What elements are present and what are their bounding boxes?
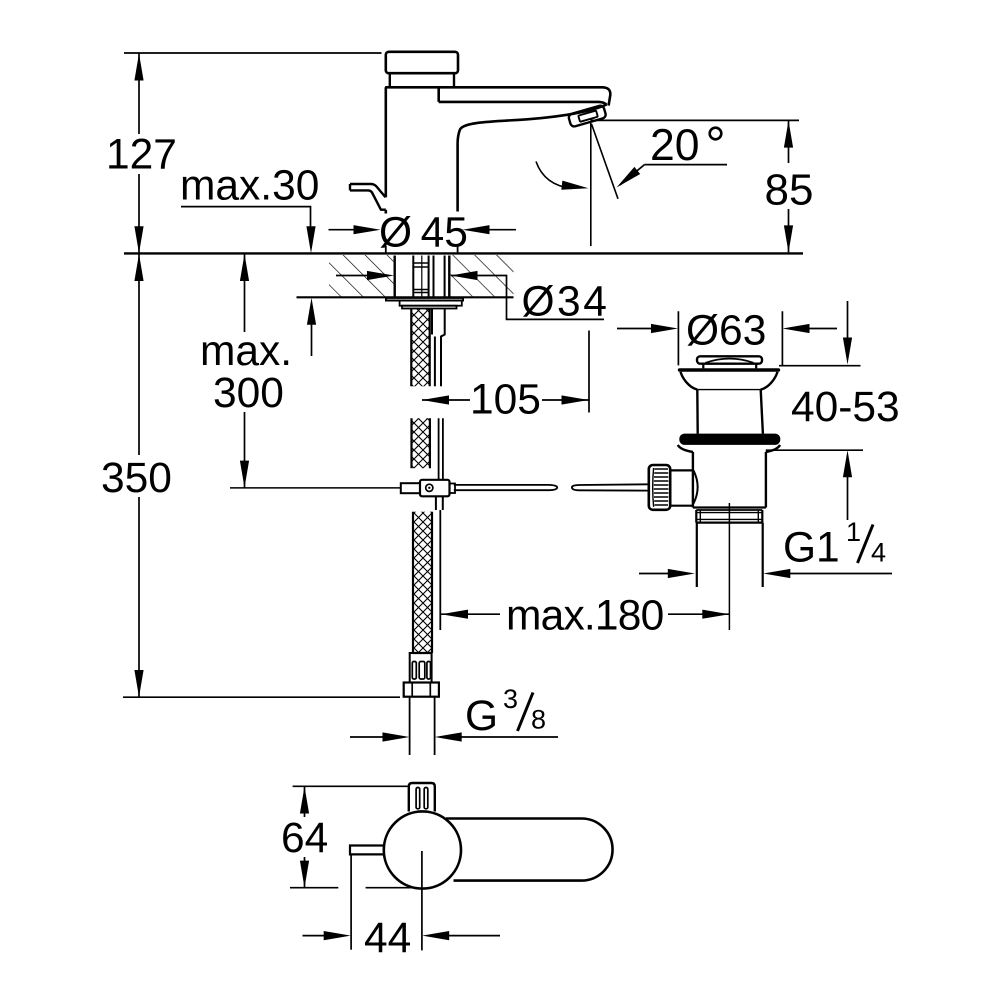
dimension 64 lines bbox=[290, 786, 415, 887]
dimension 127 line bbox=[124, 53, 382, 253]
dimension 127 arrows bbox=[134, 54, 143, 254]
dimension D63 lines bbox=[617, 311, 837, 365]
svg-text:20: 20 bbox=[650, 121, 700, 170]
dimension max.30 leader bbox=[181, 207, 311, 229]
flexible hose middle segment bbox=[412, 418, 430, 468]
top view faucet body circle bbox=[384, 811, 461, 888]
countertop top line bbox=[124, 252, 803, 254]
dimension D45 arrows and lines bbox=[329, 229, 517, 231]
svg-text:300: 300 bbox=[213, 370, 284, 417]
pop-up waste funnel bbox=[681, 372, 778, 434]
faucet body and spout outline bbox=[385, 87, 610, 213]
pull rod middle segment bbox=[439, 418, 443, 479]
connection pipe below nut bbox=[410, 697, 435, 755]
spout outlet nozzle bbox=[568, 105, 607, 128]
dimension G1 1/4 arrows bbox=[668, 569, 791, 578]
svg-text:max.30: max.30 bbox=[180, 163, 319, 210]
svg-text:40-53: 40-53 bbox=[791, 384, 900, 431]
pop-up waste rubber gasket bbox=[679, 434, 780, 445]
drain centerline bbox=[728, 503, 730, 630]
horizontal actuator rod left piece bbox=[454, 485, 557, 490]
top view sensor tab bbox=[409, 783, 435, 812]
flexible hose lower segment bbox=[413, 512, 432, 653]
dimension 105 lines bbox=[422, 331, 589, 413]
svg-text:Ø: Ø bbox=[379, 209, 412, 256]
countertop thickness arrow below bbox=[307, 298, 316, 325]
svg-text:44: 44 bbox=[364, 915, 411, 962]
pull rod tube upper segment bbox=[432, 309, 445, 387]
countertop underside line bbox=[297, 296, 514, 298]
svg-text:85: 85 bbox=[765, 166, 814, 215]
dimension 40-53 lines bbox=[766, 301, 863, 520]
svg-text:45: 45 bbox=[421, 209, 468, 256]
dimension G3/8 arrows bbox=[383, 732, 462, 741]
dimension D63 arrows bbox=[651, 324, 810, 333]
top view spout pill bbox=[446, 819, 613, 881]
dimension max.300 arrows bbox=[240, 254, 249, 488]
pull rod stub below fitting bbox=[436, 496, 443, 510]
hose end collar bbox=[410, 653, 432, 683]
svg-text:105: 105 bbox=[470, 376, 541, 423]
svg-text:350: 350 bbox=[101, 455, 172, 502]
countertop hatch right part bbox=[450, 255, 514, 297]
dimension G3/8 lines bbox=[350, 736, 558, 738]
dimension D34 arrows in countertop bbox=[336, 276, 604, 320]
dimension 85 arrows bbox=[784, 121, 793, 253]
dimension 350 arrows bbox=[134, 254, 143, 697]
drain thread section bbox=[696, 510, 762, 523]
svg-text:1: 1 bbox=[846, 517, 861, 547]
thin rod tail left of fitting with max.300 reference bbox=[230, 487, 401, 489]
mounting flange under countertop bbox=[386, 298, 463, 309]
pop-up waste top flange bbox=[678, 368, 780, 372]
pop-up waste bell under gasket bbox=[678, 445, 780, 452]
countertop hatch left part bbox=[329, 255, 395, 297]
faucet neck bbox=[390, 73, 454, 87]
lever handle bbox=[350, 184, 386, 210]
svg-text:max.180: max.180 bbox=[506, 593, 663, 640]
dimension 44 lines bbox=[303, 851, 501, 950]
dimension max.300 line bbox=[244, 254, 246, 488]
svg-text:8: 8 bbox=[531, 704, 546, 734]
dimension 105 arrows bbox=[422, 395, 589, 404]
dimension 20 degree leader bbox=[645, 164, 728, 166]
svg-text:Ø34: Ø34 bbox=[522, 279, 610, 326]
faucet cap bbox=[386, 52, 458, 73]
spout outlet extension line bbox=[590, 123, 592, 246]
dimension 85 lines bbox=[591, 120, 800, 252]
top view left tab bbox=[350, 846, 385, 855]
horizontal actuator rod right piece bbox=[572, 484, 650, 490]
svg-text:G: G bbox=[465, 693, 498, 740]
swivel arc arrow bbox=[536, 162, 572, 189]
pop-up waste body bbox=[693, 452, 766, 510]
rod coupler fitting bbox=[401, 480, 455, 497]
svg-text:max.: max. bbox=[200, 328, 292, 375]
svg-text:G1: G1 bbox=[783, 524, 840, 571]
dimension 40-53 arrows bbox=[843, 338, 852, 478]
faucet base hidden extension lines (dashed) bbox=[386, 246, 458, 253]
svg-text:3: 3 bbox=[503, 684, 518, 714]
pull rod lower segment bbox=[439, 510, 441, 630]
drain tail pipe bbox=[697, 523, 763, 587]
svg-text:127: 127 bbox=[106, 132, 177, 179]
mounting shank through countertop bbox=[395, 256, 450, 297]
svg-text:64: 64 bbox=[281, 815, 328, 862]
dimension 64 arrows bbox=[300, 787, 309, 888]
knob hub bbox=[670, 470, 693, 505]
knurled pull knob bbox=[649, 465, 670, 510]
dimension 44 arrows bbox=[324, 931, 450, 940]
svg-text:4: 4 bbox=[871, 537, 886, 567]
hose end nut bbox=[404, 683, 439, 697]
water stream 20 degree line bbox=[592, 124, 619, 199]
dimension max.180 lines bbox=[441, 613, 729, 615]
flexible hose upper segment bbox=[411, 309, 429, 387]
pop-up waste push cap bbox=[697, 356, 762, 368]
dimension 350 line bbox=[123, 254, 400, 697]
dimension max.180 arrows bbox=[441, 610, 729, 619]
svg-text:Ø63: Ø63 bbox=[686, 307, 766, 354]
dimension G1 1/4 lines bbox=[639, 573, 892, 575]
